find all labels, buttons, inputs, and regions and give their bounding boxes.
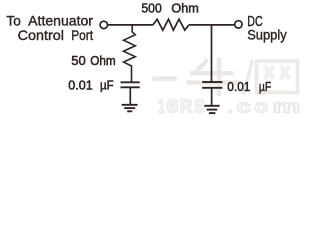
- wire: 500 Ohm resistor to DC supply terminal: [189, 24, 235, 26]
- wire: junction to right capacitor: [211, 25, 213, 82]
- resistor R2 50 Ohm (vertical zigzag): [124, 25, 136, 82]
- svg-text:µF: µF: [259, 79, 271, 94]
- resistor R1 500 Ohm (horizontal zigzag): [153, 19, 189, 30]
- capacitor C2 0.01 uF (right): [202, 82, 222, 106]
- svg-text:Control: Control: [18, 27, 64, 43]
- svg-text:µF: µF: [100, 77, 114, 92]
- svg-text:0.01: 0.01: [68, 77, 93, 92]
- ground (right): [204, 106, 219, 113]
- svg-text:c: c: [237, 95, 252, 116]
- watermark character 一: [153, 76, 177, 81]
- svg-text:6: 6: [167, 95, 179, 116]
- svg-text:S: S: [194, 95, 205, 116]
- watermark character 牛: [187, 58, 240, 96]
- svg-text:R: R: [180, 95, 193, 116]
- svg-text:Ohm: Ohm: [171, 1, 198, 16]
- node: DC supply terminal (open circle): [235, 21, 242, 28]
- svg-text:o: o: [255, 95, 269, 116]
- svg-text:1: 1: [158, 95, 165, 116]
- node: attenuator control port terminal (open circle): [100, 21, 107, 28]
- ground (left): [122, 105, 138, 112]
- capacitor C1 0.01 uF (left): [121, 82, 140, 105]
- svg-text:0.01: 0.01: [227, 79, 250, 94]
- svg-text:500: 500: [141, 1, 161, 16]
- watermark character 网: [257, 62, 297, 93]
- svg-text:m: m: [273, 95, 301, 116]
- svg-text:Ohm: Ohm: [90, 53, 115, 68]
- svg-text:Supply: Supply: [247, 26, 287, 42]
- svg-text:Port: Port: [71, 27, 93, 43]
- svg-text:50: 50: [71, 53, 86, 68]
- svg-text:.: .: [228, 95, 234, 116]
- wire: terminal to 500 Ohm resistor: [108, 24, 153, 26]
- watermark 16RS.com: [158, 95, 301, 116]
- watermark slash separator: [244, 60, 253, 95]
